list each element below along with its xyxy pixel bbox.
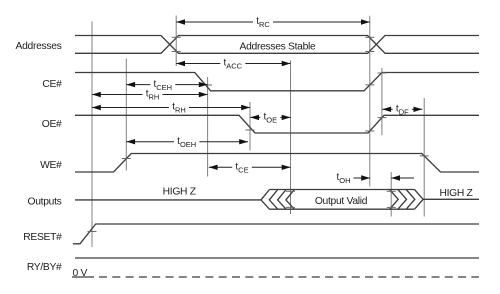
- arrow tACC: [176, 58, 290, 71]
- arrow tRC: [176, 16, 370, 29]
- ticks bus at x=290.5: [286, 191, 295, 207]
- tick RESET# rise: [88, 231, 97, 233]
- vertical reference line tDF end x=424.2: [423, 98, 425, 217]
- vertical reference line data-valid x=290.5: [290, 61, 292, 215]
- Outputs valid bus rails: [269, 190, 414, 210]
- svg-text:Outputs: Outputs: [28, 196, 62, 207]
- svg-text:tRC: tRC: [256, 16, 270, 29]
- svg-text:Addresses Stable: Addresses Stable: [240, 42, 316, 53]
- waveform OE#: [75, 115, 479, 133]
- svg-text:WE#: WE#: [40, 160, 62, 171]
- waveform CE#: [75, 73, 479, 91]
- vertical reference line RESET rise x=92: [91, 22, 93, 248]
- svg-text:tRH: tRH: [172, 102, 186, 115]
- svg-text:RESET#: RESET#: [23, 232, 62, 243]
- 0V reference dashed line: [72, 276, 479, 278]
- svg-text:tACC: tACC: [223, 58, 242, 71]
- svg-text:HIGH Z: HIGH Z: [163, 186, 196, 197]
- ticks bus at x=391.2: [387, 191, 396, 207]
- waveform RY/BY#: [75, 257, 479, 259]
- svg-text:tOEH: tOEH: [177, 136, 196, 149]
- arrow tRH: [92, 102, 250, 115]
- arrow tCEH: [126, 79, 207, 92]
- vertical reference line address-valid x=176: [175, 16, 177, 67]
- tick CE# rise top: [377, 72, 386, 74]
- tick OE# fall: [246, 129, 255, 131]
- waveform WE#: [75, 154, 479, 173]
- tick CE# fall: [203, 84, 212, 86]
- svg-text:OE#: OE#: [42, 119, 62, 130]
- tick marks address crossing right: [365, 37, 374, 51]
- vertical reference line address-change x=369.8: [369, 16, 371, 187]
- arrow tOEH: [126, 136, 248, 149]
- svg-text:Output Valid: Output Valid: [315, 196, 368, 207]
- vertical reference line CE fall x=207.6: [207, 77, 209, 177]
- waveform RESET#: [73, 224, 479, 244]
- waveform Outputs high-Z right: [423, 198, 479, 200]
- svg-text:tDF: tDF: [396, 104, 409, 117]
- tick CE# rise low: [365, 84, 374, 86]
- arrow tCE: [209, 162, 291, 175]
- arrow tOE: [250, 112, 290, 125]
- vertical reference line OE fall x=250: [249, 102, 251, 151]
- svg-text:HIGH Z: HIGH Z: [439, 188, 472, 199]
- tick OE# rise low: [365, 130, 374, 132]
- tick marks address crossing left: [172, 37, 181, 51]
- tick WE# rise: [122, 158, 131, 160]
- waveform Outputs high-Z left: [75, 199, 261, 201]
- vertical reference line CE/OE high x=381.9: [381, 68, 383, 135]
- Outputs bus open chevrons: [261, 190, 294, 210]
- arrow tDF: [382, 104, 422, 117]
- vertical reference line output-invalid x=391.2: [390, 172, 392, 217]
- waveform Addresses bus: [75, 36, 479, 54]
- tick OE# rise top: [377, 117, 386, 119]
- svg-text:tCE: tCE: [235, 162, 248, 175]
- Outputs bus close chevrons: [390, 190, 424, 210]
- svg-text:tOH: tOH: [336, 172, 350, 185]
- svg-text:RY/BY#: RY/BY#: [27, 262, 62, 273]
- arrow tOH: [336, 172, 414, 185]
- tick WE# fall: [420, 155, 429, 157]
- vertical reference line WE rise x=126: [125, 59, 127, 171]
- svg-text:CE#: CE#: [42, 79, 62, 90]
- svg-text:Addresses: Addresses: [16, 41, 62, 52]
- svg-text:0 V: 0 V: [73, 268, 88, 279]
- arrow tRH: [92, 89, 208, 102]
- svg-text:tCEH: tCEH: [153, 79, 172, 92]
- svg-text:tOE: tOE: [263, 112, 277, 125]
